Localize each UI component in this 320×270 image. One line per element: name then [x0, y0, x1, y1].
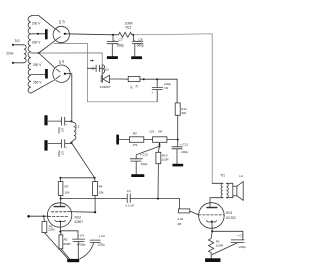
- svg-text:200 V: 200 V: [32, 21, 41, 25]
- svg-text:100µ: 100µ: [98, 242, 105, 246]
- speaker LS1: [233, 186, 237, 196]
- svg-text:22k: 22k: [149, 130, 155, 134]
- resistor R1: [209, 231, 214, 258]
- svg-text:Tr2: Tr2: [15, 39, 20, 43]
- RO1 cathode: [207, 221, 217, 222]
- svg-text:Ls1: Ls1: [239, 175, 244, 178]
- transformer Tr2 primary winding: [24, 45, 26, 63]
- capacitor C7: [107, 35, 118, 56]
- svg-text:C5: C5: [61, 151, 65, 155]
- wire: [13, 62, 24, 64]
- wire wiper to C12: [136, 146, 159, 159]
- wire B+ rail to Tr1: [133, 34, 212, 184]
- tube RO1 envelope: [199, 203, 225, 229]
- wire filter to plate rail: [71, 143, 94, 178]
- ground (C11): [172, 164, 183, 167]
- svg-text:C9: C9: [164, 86, 168, 90]
- node screen/R4: [94, 211, 96, 213]
- capacitor C2: [80, 240, 101, 259]
- svg-text:+ C3: + C3: [237, 233, 244, 237]
- node C1/R10: [157, 198, 159, 200]
- label 1N4007: [100, 85, 111, 89]
- transformer Tr1 secondary: [226, 183, 228, 197]
- ground (main): [67, 259, 79, 262]
- wire: [119, 139, 129, 141]
- svg-text:R11: R11: [126, 26, 132, 30]
- svg-text:U2: U2: [61, 20, 65, 24]
- capacitor C12: [130, 159, 142, 174]
- rectifier U2 cathode strokes: [56, 69, 60, 79]
- node heater filter top: [70, 120, 72, 122]
- ground (C12): [131, 174, 144, 177]
- transformer Tr2 label: [6, 39, 19, 56]
- capacitor C6: [48, 117, 71, 125]
- svg-text:250 V: 250 V: [33, 63, 42, 67]
- wire heater line A: [54, 44, 157, 102]
- tube RO2 envelope: [47, 203, 71, 227]
- svg-text:+: +: [152, 91, 154, 94]
- RO2 plate: [60, 199, 62, 207]
- resistor R2: [60, 232, 62, 235]
- svg-text:R8: R8: [158, 130, 162, 134]
- ground (C8): [131, 56, 142, 59]
- node wiper: [159, 145, 161, 147]
- svg-text:220v: 220v: [6, 51, 14, 55]
- wire cathode to C3: [212, 231, 243, 239]
- svg-text:+ C4: + C4: [77, 234, 84, 238]
- input terminal: [27, 215, 30, 218]
- label D1: [105, 67, 109, 71]
- curved plate symbol near D1: [103, 65, 105, 74]
- svg-text:L1: L1: [76, 125, 80, 129]
- transformer Tr1 label: [220, 174, 225, 178]
- rectifier U2 envelope: [53, 65, 70, 82]
- primary terminal top: [12, 44, 14, 46]
- arrow mark above 1u: [90, 60, 93, 61]
- wire screen to R4: [67, 211, 95, 214]
- svg-text:+ C2: + C2: [98, 234, 105, 238]
- node rail left: [59, 177, 61, 179]
- node RO1 cathode: [211, 230, 213, 232]
- svg-text:600R: 600R: [63, 242, 71, 246]
- resistor R4: [94, 178, 97, 182]
- svg-text:1N4007: 1N4007: [100, 85, 111, 89]
- wire secondary bottom to U2 envelope: [31, 80, 54, 93]
- transformer Tr2 secondary winding: [28, 16, 31, 93]
- svg-text:2.2 uF: 2.2 uF: [124, 204, 135, 208]
- svg-text:2.2k: 2.2k: [177, 217, 184, 221]
- svg-text:+: +: [134, 38, 136, 42]
- svg-text:47k: 47k: [133, 143, 138, 147]
- RO1 plate: [207, 207, 217, 209]
- resistor R5: [43, 216, 46, 221]
- capacitor C8: [132, 35, 143, 57]
- label 2/2 U2: [58, 60, 65, 65]
- node grid/R5: [43, 215, 45, 217]
- rectifier U1 plate bar: [45, 29, 48, 39]
- svg-text:+: +: [66, 124, 68, 127]
- capacitor C1: [127, 194, 158, 203]
- wire tap4 to diode plate: [31, 73, 45, 75]
- svg-text:10k: 10k: [64, 190, 69, 194]
- node RO2 plate: [60, 198, 62, 200]
- svg-text:6C33C: 6C33C: [226, 216, 237, 220]
- label RO2: [75, 216, 84, 224]
- wire R2 to ground: [61, 249, 70, 259]
- node C8: [132, 34, 134, 36]
- svg-text:R6: R6: [178, 222, 182, 226]
- label 1u rotated: [90, 67, 94, 71]
- label RO1: [226, 211, 237, 220]
- node R12/C11: [177, 139, 179, 141]
- svg-text:D1: D1: [105, 67, 109, 71]
- node RO2 cathode: [59, 231, 61, 233]
- resistor R6: [179, 209, 190, 213]
- svg-text:6Э6П: 6Э6П: [75, 220, 84, 224]
- svg-text:660µ: 660µ: [137, 44, 144, 48]
- svg-text:R4: R4: [99, 185, 103, 189]
- wire secondary top to U1 envelope: [31, 15, 55, 28]
- svg-text:33k: 33k: [99, 190, 104, 194]
- inductor L1: [71, 121, 76, 142]
- potentiometer R8: [153, 137, 167, 143]
- wire center tap to U1 envelope: [39, 41, 55, 53]
- wire to R12: [157, 79, 177, 103]
- svg-text:100µ: 100µ: [181, 150, 188, 154]
- label 1/2 U2: [58, 20, 65, 24]
- node heater filter bottom: [70, 142, 72, 144]
- RO2 control grid: [48, 215, 69, 217]
- svg-text:R2: R2: [64, 238, 68, 242]
- svg-text:1µ: 1µ: [90, 67, 94, 71]
- svg-text:Tr1: Tr1: [220, 174, 225, 178]
- svg-text:250 V: 250 V: [33, 80, 42, 84]
- resistor R12: [175, 103, 180, 115]
- wire center tap: [31, 52, 39, 54]
- svg-text:C8: C8: [138, 38, 142, 42]
- label 100R: [125, 22, 134, 30]
- wire R5 to ground: [44, 233, 68, 259]
- capacitor C3: [212, 240, 244, 255]
- svg-text:660µ: 660µ: [117, 44, 124, 48]
- primary terminal bottom: [12, 62, 14, 64]
- rectifier U1 output node: [64, 33, 66, 35]
- rectifier U2 plate bar: [45, 69, 48, 79]
- RO2 cathode: [55, 220, 66, 221]
- ground (R1): [205, 258, 220, 262]
- svg-text:100µ: 100µ: [141, 162, 148, 166]
- svg-text:+: +: [66, 146, 68, 149]
- wire: [144, 139, 153, 141]
- svg-text:R9: R9: [133, 131, 137, 135]
- svg-text:200 V: 200 V: [32, 41, 41, 45]
- svg-text:RO1: RO1: [226, 211, 233, 215]
- diode D1: [101, 65, 121, 83]
- capacitor C5: [48, 140, 71, 148]
- capacitor C9: [152, 79, 162, 102]
- resistor R7: [128, 76, 140, 81]
- node tap2: [37, 33, 39, 35]
- svg-text:220k: 220k: [47, 228, 55, 232]
- node after R7: [143, 78, 145, 80]
- svg-text:+ C11: + C11: [180, 142, 188, 146]
- svg-text:C6: C6: [61, 128, 65, 132]
- svg-text:100R: 100R: [216, 244, 224, 248]
- svg-text:C7: C7: [119, 38, 123, 42]
- ground (C6): [44, 115, 47, 125]
- svg-text:4700µ: 4700µ: [77, 242, 86, 246]
- label 200 V (top section): [32, 21, 42, 84]
- wire tap2 to diode plate: [31, 33, 45, 35]
- svg-text:R7: R7: [129, 85, 133, 89]
- svg-text:C1: C1: [127, 189, 131, 193]
- node C9: [156, 78, 158, 80]
- wire cathode to C4: [60, 231, 78, 239]
- rectifier U1 cathode strokes: [56, 29, 60, 39]
- wire wiper to R10: [158, 146, 159, 152]
- wire: [13, 44, 24, 46]
- wire bias line B: [39, 53, 102, 66]
- capacitor C4: [73, 239, 85, 259]
- node C7: [112, 34, 114, 36]
- label R7 rotated: [129, 84, 138, 88]
- RO1 grid: [199, 214, 225, 216]
- wire to R6: [158, 199, 180, 209]
- wire to Tr1 primary: [212, 182, 223, 184]
- node center tap: [38, 52, 40, 54]
- svg-text:+ C12: + C12: [140, 153, 149, 157]
- svg-text:110R: 110R: [162, 158, 170, 162]
- plate supply rail: [60, 177, 94, 179]
- resistor R9: [129, 137, 143, 143]
- wire: [144, 78, 157, 80]
- ground (R9): [116, 135, 119, 145]
- svg-text:R3: R3: [64, 185, 68, 189]
- node rail right: [94, 177, 96, 179]
- svg-text:U2: U2: [61, 60, 65, 64]
- wiper arrow R8: [159, 144, 161, 147]
- resistor R10: [156, 152, 161, 163]
- wire plate to C1: [61, 198, 128, 200]
- svg-text:40k: 40k: [181, 111, 186, 115]
- rectifier U2 output node: [64, 73, 66, 75]
- wire center tap to U2 envelope: [39, 53, 55, 67]
- resistor R3: [59, 178, 61, 182]
- transformer Tr1 primary: [221, 183, 223, 197]
- wire U2 output down: [66, 74, 72, 122]
- capacitor C10 1u (bias): [87, 65, 102, 71]
- wire grid to input: [29, 215, 49, 217]
- ground (C7): [107, 56, 118, 59]
- rectifier U1 envelope: [53, 26, 69, 42]
- capacitor C11: [172, 140, 182, 164]
- wire: [167, 139, 178, 141]
- svg-text:220µ: 220µ: [238, 245, 246, 249]
- svg-text:+: +: [114, 38, 116, 42]
- wire secondary to speaker: [226, 183, 232, 197]
- resistor R11: [113, 32, 133, 37]
- RO2 screen grid: [51, 211, 67, 213]
- wire Tr1 primary to RO1 plate: [210, 198, 223, 208]
- wire U1 output to R11 node: [66, 34, 113, 35]
- ground (C5): [44, 140, 47, 150]
- svg-text:1k: 1k: [135, 84, 139, 87]
